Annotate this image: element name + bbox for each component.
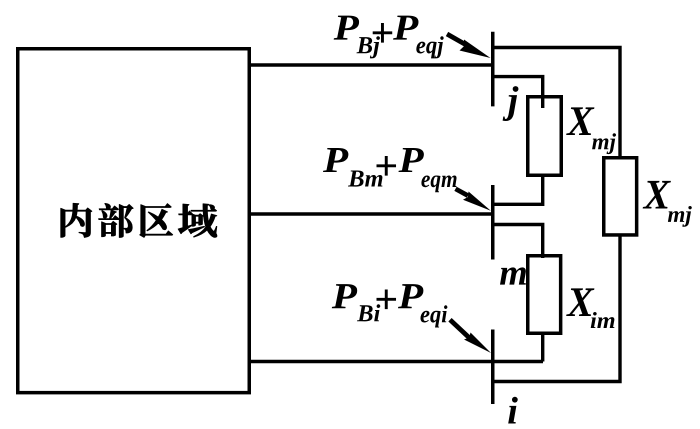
wire from box to bus m <box>249 212 492 215</box>
value label X_mj left (X) <box>566 107 594 135</box>
value label X_im (X) <box>566 288 594 316</box>
wire from box to bus j <box>249 63 492 66</box>
X_im bottom lead down to bus i wire <box>541 333 544 362</box>
label plus (bottom) <box>377 290 397 310</box>
arrow into bus j (head) <box>460 40 491 59</box>
text char 区 <box>140 204 173 238</box>
label plus (top) <box>373 23 393 43</box>
value label X_mj right (X) <box>643 181 671 209</box>
arrow into bus m (tail) <box>456 189 469 196</box>
label P_eqj (P) <box>393 16 418 40</box>
wire from bus m to X_im top lead <box>493 225 543 259</box>
label P_eqj subscript eqj <box>416 36 443 58</box>
label P_Bm (P) <box>323 148 348 172</box>
arrow into bus j (tail) <box>447 34 466 45</box>
value label X_mj right subscript mj <box>668 206 692 227</box>
text char 域 <box>178 204 217 238</box>
label P_eqm subscript eqm <box>421 175 456 192</box>
reactance X_mj box (between j and m) <box>528 97 562 176</box>
reactance X_im box (between m and i) <box>528 256 561 334</box>
reactance X_mj box (right, between j and i) <box>604 158 637 235</box>
value label X_mj left subscript mj <box>592 133 616 154</box>
wire from box to bus i and X_im bottom lead <box>249 360 543 363</box>
arrow into bus i (head) <box>464 333 491 354</box>
X_mj bottom lead to bus m <box>493 176 543 204</box>
wire from bus j to right branch (top) <box>493 48 620 158</box>
label P_Bm subscript Bm <box>348 170 382 186</box>
internal region box <box>18 49 250 393</box>
node label j <box>503 86 519 121</box>
arrow into bus m (head) <box>463 192 491 211</box>
label P_eqi (P) <box>398 284 423 308</box>
label P_Bj (P) <box>334 16 359 40</box>
label P_Bi (P) <box>332 284 357 308</box>
node label m <box>500 267 526 284</box>
bus i <box>491 330 495 405</box>
wire from bus i to right branch (bottom) <box>493 235 620 382</box>
label P_Bj subscript Bj <box>357 36 380 58</box>
bus j <box>491 32 495 107</box>
text char 内 <box>61 203 92 237</box>
label P_Bi subscript Bi <box>357 304 380 321</box>
bus m <box>491 185 495 260</box>
node label i <box>508 397 518 424</box>
label plus (middle) <box>377 156 397 176</box>
wire from bus j to X_mj top lead <box>493 77 543 108</box>
arrow into bus i (tail) <box>450 320 470 338</box>
label P_eqm (P) <box>398 148 423 172</box>
label P_eqi subscript eqi <box>420 305 447 327</box>
value label X_im subscript im <box>591 312 615 328</box>
text char 部 <box>99 203 134 237</box>
